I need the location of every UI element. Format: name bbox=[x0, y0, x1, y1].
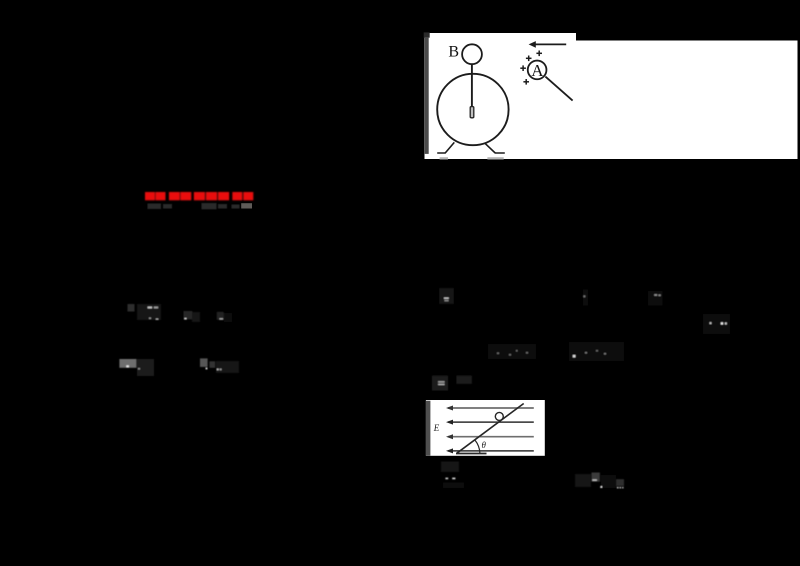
field arrowhead 3 bbox=[446, 434, 453, 439]
plus sign 1 bbox=[536, 51, 542, 57]
faint right column row A bbox=[439, 288, 662, 306]
arrow line (velocity) bbox=[534, 43, 566, 45]
incline bbox=[457, 404, 524, 454]
insulating rod bbox=[545, 77, 572, 101]
field line 2 bbox=[448, 421, 534, 423]
right leg bbox=[485, 143, 495, 153]
figure 1 white panel left part bbox=[425, 33, 577, 159]
gray block at end of subtitle bbox=[241, 203, 252, 208]
left leg bbox=[445, 142, 454, 153]
figure 2 white panel bbox=[426, 400, 545, 456]
figure 2 gray strip bbox=[426, 401, 431, 456]
figure 1 left gray scrollbar strip bbox=[425, 38, 429, 154]
faint formula row 2 left column bbox=[119, 358, 239, 376]
faint bottom right fragments bbox=[575, 473, 624, 489]
faint +Q dots bbox=[703, 314, 730, 334]
arrow head bbox=[529, 41, 536, 48]
gray stub under right foot bbox=[487, 157, 503, 159]
ball A circle bbox=[528, 61, 547, 80]
red heading cluster 1 bbox=[145, 192, 253, 200]
field line 1 bbox=[448, 407, 534, 409]
field arrowhead 1 bbox=[446, 406, 453, 411]
electroscope stem bbox=[471, 64, 473, 107]
figure 1 strip dark cap bbox=[424, 32, 430, 37]
dark subtitle fragments under red heading bbox=[148, 203, 240, 209]
ball on incline bbox=[495, 412, 503, 420]
needle bbox=[470, 107, 474, 118]
gray stub under left foot bbox=[440, 157, 448, 159]
faint right column formulas bbox=[488, 342, 624, 361]
faint fragments below figure 2 bbox=[441, 462, 464, 489]
figure 1 white panel right part bbox=[576, 41, 798, 160]
field arrowhead 4 bbox=[446, 448, 453, 453]
left foot bbox=[437, 152, 446, 154]
svg-text:E: E bbox=[433, 423, 440, 433]
angle arc bbox=[475, 440, 480, 453]
field line 4 bbox=[448, 450, 534, 452]
svg-text:B: B bbox=[448, 43, 459, 60]
right foot bbox=[495, 152, 505, 154]
faint formula row 1 left column bbox=[128, 304, 233, 322]
base hatch bbox=[456, 453, 487, 455]
plus sign 4 bbox=[523, 79, 529, 85]
field line 3 bbox=[448, 436, 534, 438]
svg-text:A: A bbox=[531, 61, 544, 80]
plus sign 3 bbox=[520, 65, 526, 71]
faint (4) row bbox=[432, 376, 472, 391]
field arrowhead 2 bbox=[446, 420, 453, 425]
ball B circle bbox=[462, 44, 482, 64]
electroscope body circle bbox=[437, 74, 508, 145]
plus sign 2 bbox=[526, 56, 532, 62]
svg-text:θ: θ bbox=[482, 440, 487, 450]
